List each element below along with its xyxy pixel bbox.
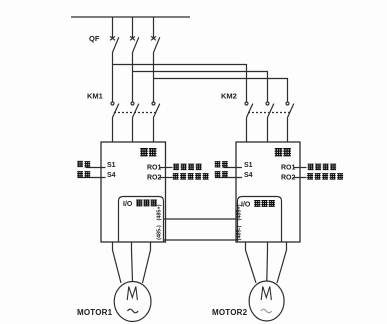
wire L3 drop to QF: [153, 17, 155, 38]
wire L3 QF to KM1: [153, 53, 155, 103]
wire L1 QF to KM1: [112, 53, 114, 103]
wire U1 to motor1 W: [143, 242, 151, 283]
wire tap phase3 to KM2: [154, 79, 288, 103]
wire U1 to motor1 U: [113, 242, 122, 283]
label 启动 start (master): [77, 161, 90, 167]
label 电源运行中 power running (slave): [307, 173, 343, 179]
svg-text:S4: S4: [244, 172, 253, 179]
svg-text:(485+): (485+): [157, 204, 163, 220]
wire KM1 pole3 to master box: [153, 118, 155, 143]
label 复位 reset (slave): [215, 171, 228, 177]
label I/O expansion card (slave): [241, 200, 275, 209]
breaker QF pole 2: [130, 36, 139, 52]
svg-text:I/O: I/O: [123, 201, 133, 208]
wire L2 drop to QF: [132, 17, 134, 38]
wire L1 drop to QF: [112, 17, 114, 38]
svg-text:(485+): (485+): [237, 204, 243, 220]
contactor KM1 pole 3: [152, 102, 160, 118]
contactor KM2 pole 2: [266, 102, 274, 118]
label 启动 start (slave): [215, 161, 228, 167]
motor M1 letter M: [127, 287, 137, 301]
contactor KM1 pole 2: [131, 102, 139, 118]
motor M2 letter M: [261, 287, 271, 301]
motor M1 circle: [114, 282, 151, 322]
wire RS485+ link: [164, 218, 238, 220]
svg-text:QF: QF: [89, 34, 100, 43]
terminal RO2 wire (slave): [294, 177, 307, 179]
wire U1 to motor1 V: [132, 242, 133, 282]
wire U2 to motor2 W: [277, 242, 287, 283]
breaker QF pole 3: [151, 36, 160, 52]
svg-text:MOTOR2: MOTOR2: [212, 308, 248, 317]
wire L2 QF to KM1: [132, 53, 134, 103]
terminal RO1 wire (slave): [294, 167, 307, 169]
wire tap phase1 to KM2: [113, 65, 247, 103]
contactor KM2 pole 1: [245, 102, 253, 118]
terminal S4 wire (master): [78, 177, 106, 179]
label 故障输出 fault output (slave): [308, 164, 336, 170]
wire U2 to motor2 U: [246, 242, 257, 283]
wire tap phase2 to KM2: [133, 72, 268, 103]
motor M1 tilde: [128, 309, 139, 313]
wire KM2 pole3 to slave box: [287, 118, 289, 143]
svg-text:RO2: RO2: [147, 174, 162, 181]
svg-text:(485-): (485-): [237, 225, 243, 240]
motor M2 circle: [249, 281, 284, 321]
svg-text:KM2: KM2: [221, 92, 237, 101]
svg-text:RO1: RO1: [147, 164, 162, 171]
wire KM2 pole1 to slave box: [246, 118, 248, 143]
wire RS485- link: [164, 239, 238, 241]
I/O expansion card box U1: [119, 197, 164, 243]
KM2 linkage dashed: [248, 112, 290, 114]
terminal S1 wire (slave): [224, 167, 243, 169]
svg-text:KM1: KM1: [87, 92, 103, 101]
KM1 linkage dashed: [114, 112, 156, 114]
wire U2 to motor2 V: [266, 242, 269, 281]
terminal S4 wire (slave): [215, 177, 242, 179]
terminal RO2 wire (master): [160, 177, 173, 179]
label 从机 (slave): [275, 148, 291, 156]
label I/O expansion card (master): [123, 200, 157, 209]
svg-text:(485-): (485-): [157, 225, 163, 240]
terminal RO1 wire (master): [160, 167, 173, 169]
I/O expansion card box U2: [238, 197, 282, 243]
inverter U1 master box: [101, 142, 166, 242]
svg-text:MOTOR1: MOTOR1: [77, 308, 113, 317]
label 电源运行中 power running (master): [173, 173, 209, 179]
svg-text:S1: S1: [244, 162, 253, 169]
contactor KM1 pole 1: [111, 102, 119, 118]
svg-text:S4: S4: [107, 172, 116, 179]
inverter U2 slave box: [236, 142, 300, 242]
wire KM1 pole2 to master box: [132, 118, 134, 143]
label 复位 reset (master): [77, 171, 90, 177]
breaker QF pole 1: [110, 36, 119, 52]
contactor KM2 pole 3: [286, 102, 294, 118]
motor M2 tilde: [261, 309, 272, 313]
label 主机 (master): [140, 148, 156, 156]
wire KM2 pole2 to slave box: [267, 118, 269, 143]
svg-text:RO2: RO2: [281, 174, 296, 181]
svg-text:S1: S1: [107, 162, 116, 169]
top power bus: [71, 16, 190, 18]
terminal S1 wire (master): [86, 167, 106, 169]
wire KM1 pole1 to master box: [112, 118, 114, 143]
label 故障输出 fault output (master): [173, 164, 201, 170]
svg-text:RO1: RO1: [281, 164, 296, 171]
